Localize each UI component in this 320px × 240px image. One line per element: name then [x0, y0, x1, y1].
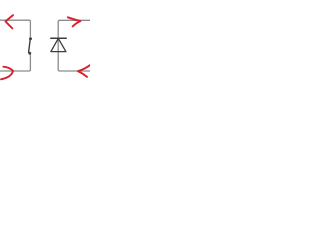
wire: right loop top segment (cut off at right image edge) — [58, 20, 90, 37]
diode D triangle (anode, pointing up) — [51, 38, 66, 51]
wire: left loop bottom segment below switch (cut off at left image edge) — [0, 55, 30, 71]
switch S bottom contact dot — [28, 52, 31, 55]
wire: right loop left edge through diode and bottom segment (cut off at right image edge) — [58, 38, 90, 71]
wire: left loop top segment (cut off at left image edge) — [0, 20, 30, 37]
red current arrow on left loop bottom wire, pointing right — [1, 67, 13, 80]
red current arrow on right loop bottom wire, pointing left — [78, 65, 90, 77]
switch S lever (blade) — [29, 39, 31, 52]
switch S top contact dot — [29, 37, 32, 40]
red current arrow on right loop top wire, pointing right — [68, 17, 81, 26]
diode D cathode bar — [50, 37, 67, 39]
red current arrow on left loop top wire, pointing left — [6, 15, 14, 28]
